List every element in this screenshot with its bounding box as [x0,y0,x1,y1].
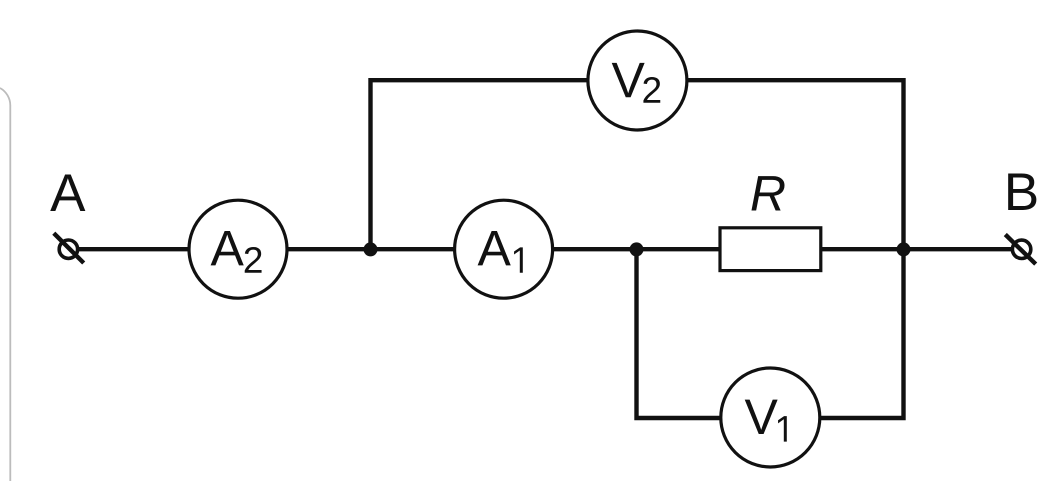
wire V2 across and down to node 3 (right half of top branch) [687,80,904,249]
wire terminal A to A2 [79,247,189,251]
voltmeter V2 [588,31,687,130]
ammeter A2 [189,200,287,298]
terminal A [54,233,84,263]
junction node 2 [630,242,644,256]
wire node1 to A1 [371,247,456,251]
terminal B [1005,235,1035,265]
card edge (left border of underlying panel) [0,88,10,481]
label R [751,176,784,210]
wire A2 to node 1 [287,247,371,251]
wire V1 across and up to node 3 (right half of bottom branch) [820,249,904,418]
ammeter A1 [455,200,553,298]
node label A [50,175,85,211]
label A2 (meter face) [211,231,244,265]
wire node1 up and across to V2 (left half of top branch) [371,80,589,249]
resistor R body [720,228,821,271]
voltmeter V1 [721,368,820,467]
node label B [1008,174,1036,210]
label V2 (meter face) [612,63,645,97]
wire node 2 down and across to V1 (left half of bottom branch) [637,249,722,418]
wire node 3 to terminal B [904,247,1013,251]
junction node 1 [364,242,378,256]
label V1 (meter face) [745,400,778,434]
label A1 (meter face) [478,231,511,265]
junction node 3 [897,242,911,256]
wire node 2 to resistor [637,247,721,251]
wire A1 to node 2 [553,247,637,251]
wire resistor to node 3 [821,247,904,251]
